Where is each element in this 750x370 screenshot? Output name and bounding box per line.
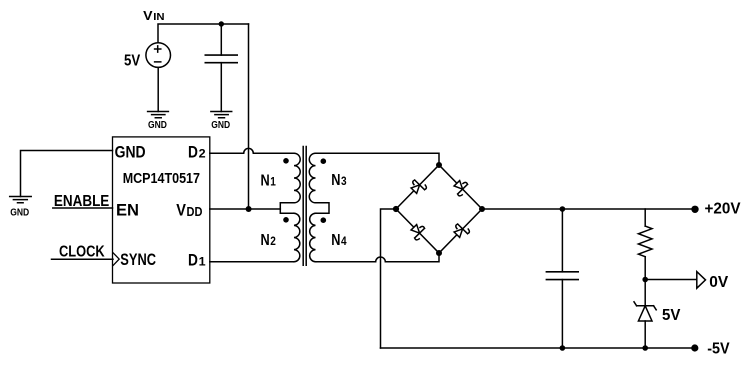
label ENABLE	[54, 193, 110, 210]
wire VIN to VDD node	[248, 24, 250, 209]
terminal dot +20V	[691, 206, 698, 213]
svg-text:1: 1	[270, 174, 276, 188]
label SYNC pin	[120, 251, 156, 269]
bridge arm wires	[396, 165, 482, 253]
wire resistor to 0V node	[644, 257, 646, 280]
phase dot N1	[283, 158, 289, 164]
wire input cap to ground	[220, 63, 222, 112]
junction bridge left	[393, 206, 399, 212]
label VIN	[143, 8, 165, 23]
svg-text:GND: GND	[211, 120, 230, 131]
svg-text:MCP14T0517: MCP14T0517	[123, 171, 200, 187]
svg-text:2: 2	[270, 234, 276, 248]
label +20V	[705, 201, 742, 218]
svg-text:D: D	[188, 251, 198, 269]
svg-text:5V: 5V	[662, 307, 681, 324]
svg-text:N: N	[261, 232, 270, 249]
svg-text:N: N	[261, 172, 270, 189]
svg-text:IN: IN	[153, 12, 164, 23]
ground (IC GND)	[10, 197, 32, 203]
junction output cap top	[560, 206, 566, 212]
wire N4 bottom to bridge bottom (hop over left leg)	[316, 253, 440, 262]
junction zener bottom	[642, 345, 648, 351]
diode D6 (bottom-right arm)	[452, 221, 471, 240]
label N3	[331, 172, 347, 189]
wire VIN rail	[158, 24, 249, 43]
svg-text:SYNC: SYNC	[120, 251, 156, 269]
ground (below input cap)	[211, 112, 232, 118]
svg-text:4: 4	[341, 234, 347, 248]
wire D2 to N1 top (hop over VIN line)	[210, 148, 294, 153]
junction bridge right	[479, 206, 485, 212]
svg-text:D: D	[188, 144, 198, 162]
wire rail to input cap	[220, 24, 222, 55]
ground (below source)	[148, 112, 169, 118]
svg-text:V: V	[143, 8, 153, 23]
winding N1	[294, 153, 300, 203]
junction bridge bottom	[436, 250, 442, 256]
phase dot N3	[321, 158, 327, 164]
winding N4	[310, 213, 316, 262]
junction cap bottom	[560, 345, 566, 351]
IC U1 box	[113, 137, 210, 283]
transformer core	[303, 147, 306, 266]
diode D3 (left-top arm)	[409, 177, 428, 196]
svg-text:3: 3	[341, 174, 347, 188]
wire 0V node to terminal	[645, 279, 697, 281]
wire CLOCK to SYNC pin	[52, 258, 114, 260]
label N2	[261, 232, 277, 249]
phase dot N2	[283, 217, 289, 223]
secondary series link N3-N4	[316, 203, 330, 213]
zener diode Z1	[634, 302, 656, 310]
svg-text:+20V: +20V	[705, 201, 742, 218]
wire cap bottom lead	[561, 280, 563, 348]
wire VDD to primary tap	[210, 208, 280, 210]
primary tap tee	[280, 203, 294, 213]
diode D5 (left-bottom arm)	[409, 222, 428, 241]
svg-text:N: N	[331, 172, 340, 189]
junction VDD node	[246, 206, 252, 212]
winding N2	[294, 213, 300, 262]
wire bridge left to bottom rail	[381, 209, 397, 348]
wire zener to bottom rail	[644, 321, 646, 348]
terminal dot -5V	[691, 344, 698, 351]
wire source to ground	[157, 67, 159, 111]
svg-text:0V: 0V	[709, 274, 729, 291]
wire GND pin to ground	[21, 151, 113, 197]
label GND pin	[115, 144, 146, 162]
diode D4 (top-right arm)	[452, 178, 471, 197]
label GND (IC ground)	[10, 208, 29, 219]
svg-text:GND: GND	[115, 144, 146, 162]
svg-text:N: N	[331, 232, 340, 249]
label MCP14T0517	[123, 171, 200, 187]
wire 0V node to zener	[644, 280, 646, 306]
voltage source V1	[146, 43, 171, 68]
junction VIN rail / input cap	[219, 21, 224, 26]
label 5V (source)	[124, 53, 140, 70]
svg-text:V: V	[176, 201, 186, 219]
label N4	[331, 232, 347, 249]
wire D1 to N2 bottom	[210, 261, 294, 263]
svg-text:CLOCK: CLOCK	[59, 243, 105, 260]
capacitor C1 (input)	[205, 55, 237, 63]
winding N3	[309, 153, 315, 203]
wire ENABLE to EN pin	[53, 207, 113, 209]
svg-text:EN: EN	[116, 201, 139, 219]
label GND (source ground)	[148, 120, 167, 131]
label GND (cap ground)	[211, 120, 230, 131]
svg-text:2: 2	[199, 147, 206, 161]
junction bridge top	[436, 162, 442, 168]
capacitor C2 (output)	[546, 272, 578, 280]
junction 0V node	[642, 277, 648, 283]
label 0V	[709, 274, 729, 291]
label VDD pin	[176, 201, 202, 219]
label EN pin	[116, 201, 139, 219]
wire -5V bottom rail	[381, 347, 695, 349]
wire resistor top lead	[644, 209, 646, 226]
label N1	[261, 172, 277, 189]
svg-text:5V: 5V	[124, 53, 140, 70]
label D1 pin	[188, 251, 206, 269]
label CLOCK	[59, 243, 105, 260]
label 5V (zener)	[662, 307, 681, 324]
svg-text:GND: GND	[10, 208, 29, 219]
label -5V	[707, 341, 730, 358]
phase dot N4	[321, 217, 327, 223]
resistor R1	[638, 226, 652, 257]
label D2 pin	[188, 144, 206, 162]
wire +20V rail	[482, 208, 695, 210]
svg-text:DD: DD	[187, 205, 203, 219]
svg-text:GND: GND	[148, 120, 167, 131]
svg-text:-5V: -5V	[707, 341, 730, 358]
terminal 0V (open arrow)	[697, 272, 706, 289]
clock chevron SYNC	[113, 253, 119, 265]
wire cap top lead	[561, 209, 563, 272]
svg-text:1: 1	[199, 254, 206, 268]
wire N3 top to bridge top	[316, 153, 440, 165]
